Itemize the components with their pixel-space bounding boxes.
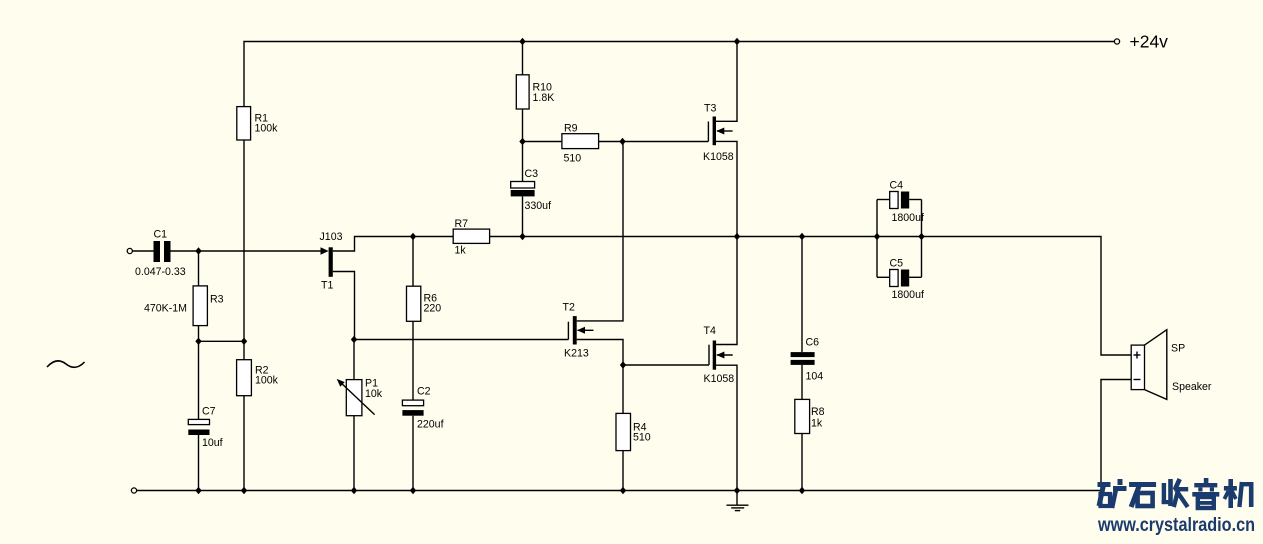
svg-text:1800uf: 1800uf <box>892 289 924 301</box>
svg-text:K1058: K1058 <box>704 373 735 385</box>
svg-text:C6: C6 <box>806 337 820 349</box>
svg-text:K213: K213 <box>564 348 589 360</box>
svg-text:104: 104 <box>806 371 824 383</box>
svg-text:330uf: 330uf <box>525 200 552 212</box>
svg-text:+24v: +24v <box>1130 32 1169 52</box>
svg-text:C7: C7 <box>202 406 216 418</box>
svg-text:10uf: 10uf <box>202 437 223 449</box>
svg-text:1k: 1k <box>455 245 467 257</box>
svg-text:220uf: 220uf <box>417 419 444 431</box>
svg-text:470K-1M: 470K-1M <box>144 303 187 315</box>
svg-text:K1058: K1058 <box>703 151 734 163</box>
svg-text:J103: J103 <box>320 231 343 243</box>
svg-text:C5: C5 <box>890 258 904 270</box>
svg-text:C4: C4 <box>890 180 904 192</box>
svg-text:T3: T3 <box>704 103 716 115</box>
svg-text:510: 510 <box>564 153 582 165</box>
svg-text:C1: C1 <box>154 229 168 241</box>
svg-text:1800uf: 1800uf <box>892 212 924 224</box>
svg-text:R3: R3 <box>210 294 224 306</box>
svg-text:220: 220 <box>424 303 442 315</box>
svg-text:1k: 1k <box>811 418 823 430</box>
svg-text:1.8K: 1.8K <box>533 92 555 104</box>
svg-text:510: 510 <box>633 432 651 444</box>
svg-text:100k: 100k <box>255 375 279 387</box>
svg-text:C3: C3 <box>525 168 539 180</box>
svg-text:10k: 10k <box>365 388 383 400</box>
svg-text:Speaker: Speaker <box>1172 381 1212 393</box>
svg-text:T2: T2 <box>563 302 575 314</box>
svg-text:100k: 100k <box>255 123 279 135</box>
svg-text:R8: R8 <box>811 406 825 418</box>
svg-text:T1: T1 <box>321 280 333 292</box>
svg-text:0.047-0.33: 0.047-0.33 <box>135 266 186 278</box>
svg-text:T4: T4 <box>704 325 716 337</box>
svg-text:SP: SP <box>1171 343 1185 355</box>
svg-text:R9: R9 <box>564 123 578 135</box>
svg-text:R7: R7 <box>455 218 469 230</box>
svg-text:C2: C2 <box>417 386 431 398</box>
svg-text:www.crystalradio.cn: www.crystalradio.cn <box>1097 515 1255 536</box>
